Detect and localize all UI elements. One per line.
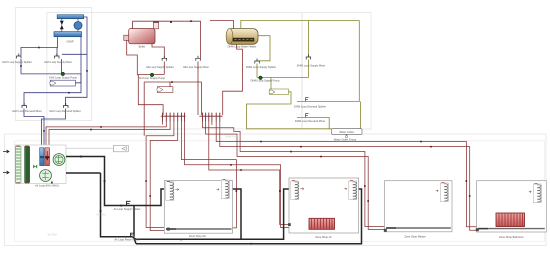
svg-text:HE Loop Supply Mixer: HE Loop Supply Mixer bbox=[183, 65, 209, 69]
duct return trunk B bbox=[136, 189, 362, 244]
junction Air Loop Supply Splitter bbox=[127, 201, 131, 205]
wire demand mixer line bbox=[297, 118, 329, 130]
pipe AHU coil supply bbox=[46, 122, 166, 149]
svg-text:DHW Loop Supply Splitter: DHW Loop Supply Splitter bbox=[246, 65, 276, 69]
bypass valve bbox=[33, 165, 37, 169]
convector coil Bathroom right bbox=[529, 184, 542, 203]
return fan bbox=[40, 170, 52, 182]
port marker zone Master bbox=[384, 229, 387, 232]
wire HP bottom-right leg bbox=[24, 37, 81, 106]
wire pump inlet drop bbox=[270, 78, 272, 90]
svg-text:DHW Loop Supply Mixer: DHW Loop Supply Mixer bbox=[297, 64, 326, 68]
supply fan bbox=[53, 154, 65, 166]
svg-text:DHW Loop Demand Splitter: DHW Loop Demand Splitter bbox=[294, 105, 326, 109]
black duct arrows bbox=[80, 156, 252, 245]
pipe zone GF floor return bbox=[150, 122, 178, 231]
convector coil Master right bbox=[436, 183, 449, 202]
junction HE Loop Supply Mixer bbox=[196, 56, 201, 61]
container building/bottom bbox=[5, 134, 547, 246]
wire mixer to HP leg bbox=[56, 48, 58, 57]
svg-text:Air Loop Return Mixer: Air Loop Return Mixer bbox=[114, 237, 139, 241]
container DHW subsystem bbox=[302, 13, 371, 130]
radiator zone Bathroom bbox=[496, 213, 525, 227]
svg-text:DHW Loop Water Heater: DHW Loop Water Heater bbox=[228, 45, 257, 49]
pump head GHX Loop Supply Pump bbox=[61, 72, 65, 76]
junction GHX Loop Demand Mixer bbox=[22, 103, 27, 108]
port marker zone Bathroom bbox=[476, 228, 479, 231]
heat recovery membrane striped bbox=[16, 146, 21, 183]
manifold splitter comb 2 bbox=[199, 113, 222, 122]
wire HE splitter down to pump line bbox=[163, 62, 165, 75]
water outlet box bbox=[332, 129, 363, 135]
heat pump GSHP top plate bbox=[57, 15, 83, 19]
heating coil supply pipe bbox=[40, 148, 44, 166]
wire demand mixer down to AHU coil bbox=[24, 109, 44, 150]
container heating plant bbox=[47, 13, 302, 130]
pump body DHW Loop Supply Pump bbox=[269, 89, 289, 95]
svg-text:Zone Shop GF: Zone Shop GF bbox=[189, 234, 206, 238]
pipe zone Bathroom radiator return bbox=[220, 122, 477, 231]
svg-text:HE Loop Supply Splitter: HE Loop Supply Splitter bbox=[146, 65, 174, 69]
svg-text:Air Loop Supply Splitter: Air Loop Supply Splitter bbox=[113, 207, 140, 211]
svg-text:DHW Grid: DHW Grid bbox=[225, 135, 237, 139]
damper box bbox=[113, 146, 128, 152]
junction HE Loop Supply Splitter bbox=[162, 56, 167, 61]
pipe zone Bathroom radiator supply bbox=[216, 122, 477, 227]
svg-text:Boiler: Boiler bbox=[139, 45, 146, 49]
heating coil return pipe bbox=[45, 148, 50, 166]
convector coil GF right bbox=[217, 180, 230, 199]
wire tank charging stub bbox=[210, 20, 233, 28]
svg-text:Air Loop AHU (AHU): Air Loop AHU (AHU) bbox=[35, 184, 59, 188]
zone Shop Master box bbox=[385, 181, 453, 232]
wire splitter to pump line bbox=[256, 64, 258, 78]
water outlet drop glyph bbox=[345, 134, 347, 137]
svg-text:GHX Loop Supply Mixer: GHX Loop Supply Mixer bbox=[44, 60, 72, 64]
svg-text:Zone Shop 1F: Zone Shop 1F bbox=[315, 235, 332, 239]
outside air inlet arrow bbox=[3, 150, 9, 153]
boiler flue bbox=[154, 22, 159, 29]
svg-text:Zone Shop Bathroom: Zone Shop Bathroom bbox=[499, 235, 524, 239]
wire tank side port to splitter bbox=[258, 36, 270, 61]
svg-text:GHX Loop Demand Mixer: GHX Loop Demand Mixer bbox=[12, 109, 42, 113]
junction DHW Loop Supply Splitter bbox=[255, 59, 259, 64]
junction DHW Loop Demand Mixer bbox=[306, 114, 309, 118]
pipe zone GF floor supply bbox=[146, 122, 174, 228]
heat pump compressor bbox=[74, 22, 82, 30]
wire boiler bottom to HE splitter bbox=[152, 44, 164, 58]
svg-text:AH Grid: AH Grid bbox=[96, 213, 106, 217]
wire HP bottom-left leg bbox=[21, 37, 58, 56]
pump body GHX Loop Supply Pump bbox=[50, 80, 76, 86]
floor heating line Master bbox=[386, 227, 451, 229]
exhaust air outlet arrow bbox=[3, 171, 9, 174]
pump head SH Loop Supply Pump bbox=[150, 73, 154, 77]
junction DHW Loop Demand Splitter bbox=[306, 98, 309, 102]
wire HP top-right leg bbox=[66, 17, 88, 106]
duct zone GF return bbox=[232, 189, 242, 239]
floor heating line GF bbox=[166, 228, 232, 230]
svg-text:GHX Loop Supply Pump: GHX Loop Supply Pump bbox=[49, 76, 78, 80]
junction GHX Loop Supply Splitter bbox=[17, 54, 22, 59]
svg-text:DHW Loop Demand Mixer: DHW Loop Demand Mixer bbox=[295, 119, 325, 123]
port marker zone GF bbox=[167, 228, 170, 231]
pipe comb spare tooth drops bbox=[162, 122, 164, 125]
wire splitter to supply line bbox=[20, 59, 22, 74]
wire SH pump suction line bbox=[138, 73, 164, 75]
wire SH pump discharge line bbox=[144, 81, 201, 83]
zone Shop 1F box bbox=[289, 178, 359, 233]
duct junction riser bbox=[133, 206, 135, 237]
pipe zone 1F radiator supply bbox=[209, 122, 310, 229]
heat pump GSHP bottom plate bbox=[54, 32, 82, 37]
svg-text:Water Outlet Group: Water Outlet Group bbox=[334, 138, 357, 142]
DHW tank body bbox=[226, 29, 258, 45]
floor line Bathroom bbox=[478, 228, 545, 230]
wire boiler left stub down to pump corner bbox=[127, 40, 138, 75]
wire mixer run to right bbox=[62, 53, 87, 55]
svg-text:Water Outlet: Water Outlet bbox=[339, 130, 354, 134]
container GHX subsystem bbox=[15, 8, 92, 121]
wire discharge drop to zone GF supply bbox=[143, 82, 145, 136]
pipe zone 1F radiator return bbox=[185, 122, 314, 228]
svg-text:SH Loop Supply Pump: SH Loop Supply Pump bbox=[139, 76, 166, 80]
wire boiler top to HE mixer bbox=[133, 21, 201, 58]
junction GHX Loop Supply Mixer bbox=[55, 54, 60, 59]
zone Shop GF box bbox=[164, 181, 232, 234]
tank heating element bbox=[233, 38, 254, 41]
damper control link bbox=[66, 147, 113, 149]
wire outlet box riser bbox=[360, 102, 362, 129]
wire demand splitter down to AHU coil bbox=[42, 109, 66, 150]
svg-text:DHW Loop Supply Pump: DHW Loop Supply Pump bbox=[251, 78, 280, 82]
pipe zone Master floor return bbox=[206, 122, 385, 230]
convector coil 1F right bbox=[344, 181, 357, 200]
svg-text:Zone Shop Master: Zone Shop Master bbox=[404, 235, 425, 239]
convector coil GF left bbox=[166, 182, 179, 201]
pipe AHU coil return bbox=[49, 122, 170, 149]
wire GHX supply pump line bbox=[21, 74, 81, 83]
red flow arrows bbox=[90, 20, 470, 202]
boiler body bbox=[129, 29, 155, 44]
heat recovery core solid bbox=[25, 146, 30, 183]
svg-text:SH Grid: SH Grid bbox=[47, 233, 57, 237]
duct AHU supply out bbox=[66, 157, 164, 206]
svg-text:GHX Loop Demand Splitter: GHX Loop Demand Splitter bbox=[49, 109, 81, 113]
wire pump line left corner to manifold 1 bbox=[138, 74, 163, 115]
svg-text:GSHP: GSHP bbox=[66, 40, 74, 44]
wire pump outlet bbox=[247, 92, 332, 129]
port marker zone 1F bbox=[288, 223, 291, 226]
pipe zone Master floor supply bbox=[203, 122, 386, 227]
wire tank bottom return bbox=[223, 44, 243, 115]
junction DHW Loop Supply Mixer bbox=[306, 55, 311, 60]
duct AHU return in bbox=[51, 182, 53, 184]
wire supply mixer drop bbox=[307, 21, 309, 57]
radiator zone 1F bbox=[309, 218, 335, 229]
convector coil 1F left bbox=[291, 181, 304, 200]
container AHU inner bbox=[15, 141, 545, 242]
pump body SH Loop Supply Pump bbox=[157, 87, 173, 93]
wire tank top header bbox=[241, 21, 359, 29]
blue arrowheads bbox=[20, 47, 88, 132]
duct return trunk A bbox=[136, 189, 289, 239]
wire mixer drop to manifold 2 bbox=[197, 62, 199, 116]
AHU container box bbox=[15, 145, 66, 184]
wire pump inlet connector bbox=[169, 82, 171, 87]
svg-text:GHX Loop Supply Splitter: GHX Loop Supply Splitter bbox=[2, 60, 32, 64]
zone Shop Bathroom box bbox=[477, 181, 547, 232]
wire demand splitter line bbox=[297, 21, 359, 102]
wire mixer down to pump head bbox=[61, 59, 63, 74]
heat pump expansion valve bbox=[60, 21, 64, 29]
boiler left stub bbox=[124, 35, 129, 40]
duct junction links bbox=[132, 237, 136, 240]
wire mixer to pump line bbox=[257, 60, 308, 78]
pipe zone GF right feed bbox=[182, 122, 237, 228]
wire pump line right corner to manifold 2 bbox=[201, 82, 203, 115]
junction Air Loop Return Mixer bbox=[131, 233, 134, 237]
pump head DHW Loop Supply Pump bbox=[259, 76, 263, 80]
junction GHX Loop Demand Splitter bbox=[64, 103, 69, 108]
manifold splitter comb 1 bbox=[161, 113, 186, 122]
